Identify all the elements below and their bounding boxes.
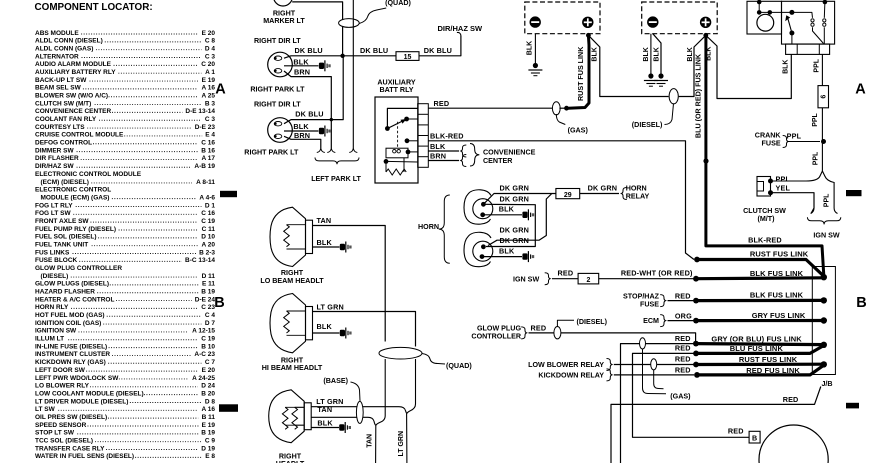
svg-text:BLK: BLK (527, 41, 534, 55)
svg-text:LEFT PWR WDO/LOCK SW: LEFT PWR WDO/LOCK SW (35, 375, 119, 382)
svg-text:CLUTCH SW (M/T): CLUTCH SW (M/T) (35, 100, 91, 107)
svg-text:RED-WHT (OR RED): RED-WHT (OR RED) (621, 269, 693, 278)
wire DK GRN horn upper to horn lower link (483, 204, 535, 246)
wire PPL ignition to fuse 6 (821, 54, 823, 85)
svg-text:BLK: BLK (293, 57, 309, 66)
svg-text:IGNITION COIL (GAS): IGNITION COIL (GAS) (35, 320, 101, 327)
svg-text:ORG: ORG (675, 312, 692, 321)
svg-text:(DIESEL): (DIESEL) (577, 318, 608, 326)
wire marker lamp to dir junction riser (292, 2, 342, 56)
svg-text:RUST FUS LINK: RUST FUS LINK (739, 355, 798, 364)
svg-text:RIGHT DIR LT: RIGHT DIR LT (254, 101, 301, 109)
wire BRN lamp2 (284, 136, 321, 148)
svg-text:C 19: C 19 (201, 336, 215, 343)
junction dot J/B row4 (821, 317, 827, 323)
svg-text:A 4-6: A 4-6 (199, 194, 215, 201)
wire feed row5 from bottom (621, 344, 695, 463)
junction dot row3 left (693, 298, 699, 304)
wire TAN lo beam (313, 226, 386, 342)
label (BASE) with pointer (351, 382, 361, 401)
svg-text:ILLUM LT: ILLUM LT (35, 336, 64, 343)
svg-text:TCC SOL (DIESEL): TCC SOL (DIESEL) (35, 437, 93, 444)
svg-text:ELECTRONIC CONTROL: ELECTRONIC CONTROL (35, 187, 111, 194)
battery GAS plus terminal (582, 17, 593, 28)
registration mark right upper (846, 190, 862, 196)
svg-text:RIGHT: RIGHT (281, 269, 304, 277)
svg-text:D-E 24: D-E 24 (195, 296, 216, 303)
svg-text:C 3: C 3 (205, 53, 216, 60)
svg-text:CRANK: CRANK (755, 131, 782, 139)
svg-text:IGNITION SW: IGNITION SW (35, 328, 77, 335)
battery DIESEL box (642, 2, 718, 34)
svg-text:ALDL CONN (DIESEL): ALDL CONN (DIESEL) (35, 38, 103, 45)
svg-text:STOP LT SW: STOP LT SW (35, 430, 75, 437)
junction dot crank fuse (821, 139, 826, 144)
wire BLK lo beam ground (313, 246, 340, 248)
ground lamp2 (319, 128, 324, 134)
svg-text:D 10: D 10 (201, 234, 215, 241)
svg-text:PPL: PPL (776, 174, 791, 183)
svg-text:A 17: A 17 (202, 155, 216, 162)
svg-text:BLK FUS LINK: BLK FUS LINK (750, 269, 804, 278)
svg-text:A 25: A 25 (202, 93, 216, 100)
junction dot battery DIESEL plus (703, 33, 708, 38)
svg-text:A 12-15: A 12-15 (192, 328, 215, 335)
svg-text:CLUTCH SW: CLUTCH SW (743, 207, 786, 215)
svg-text:FRONT AXLE SW: FRONT AXLE SW (35, 218, 89, 225)
connector ellipse (GAS) row5 (640, 338, 646, 349)
label (GAS) with pointer (556, 114, 565, 125)
svg-text:A-B 19: A-B 19 (194, 163, 215, 170)
svg-text:RED: RED (434, 99, 450, 108)
junction dot row8 left (694, 372, 700, 378)
svg-text:A-C 23: A-C 23 (194, 351, 215, 358)
svg-text:29: 29 (564, 192, 572, 199)
junction dot J/B row3 (821, 297, 827, 303)
svg-text:E 8: E 8 (205, 453, 215, 460)
svg-text:BLOWER SW (W/O A/C): BLOWER SW (W/O A/C) (35, 93, 108, 100)
svg-text:(M/T): (M/T) (757, 215, 775, 223)
svg-text:WATER IN FUEL SENS (DIESEL): WATER IN FUEL SENS (DIESEL) (35, 453, 134, 460)
svg-text:E 11: E 11 (202, 281, 215, 288)
svg-text:BRN: BRN (294, 131, 310, 140)
svg-text:BEAM SEL SW: BEAM SEL SW (35, 85, 82, 92)
ground horn upper (522, 212, 527, 218)
svg-text:AUXILIARY BATTERY RLY: AUXILIARY BATTERY RLY (35, 69, 116, 76)
ground horn lower (522, 253, 527, 259)
wire left marker circuit vertical (352, 0, 354, 148)
wire BRN relay to convenience center (428, 160, 459, 162)
svg-text:MARKER LT: MARKER LT (263, 17, 305, 25)
svg-text:DK GRN: DK GRN (500, 195, 530, 204)
svg-text:FOG LT RLY: FOG LT RLY (35, 202, 73, 209)
svg-text:CONTROLLER: CONTROLLER (471, 333, 521, 341)
svg-text:YEL: YEL (776, 184, 791, 193)
svg-text:C 4: C 4 (205, 312, 216, 319)
headlamp RIGHT HI BEAM (270, 294, 306, 353)
wire TAN merge trouser (368, 416, 385, 463)
wire RED low blower relay (614, 364, 694, 366)
svg-text:LOW BLOWER RELAY: LOW BLOWER RELAY (528, 361, 604, 369)
svg-text:DIR/HAZ SW: DIR/HAZ SW (438, 24, 484, 33)
svg-text:BLK: BLK (430, 142, 446, 151)
starter solenoid terminal B box (749, 431, 760, 443)
svg-text:KICKDOWN RELAY: KICKDOWN RELAY (538, 372, 604, 380)
wire BLU FUS LINK row6 thick (696, 346, 824, 354)
wire BLK-RED relay to fuse link row (428, 141, 694, 260)
svg-text:RED: RED (531, 323, 547, 332)
junction dot row5 left (693, 341, 699, 347)
ground diesel battery 2 (658, 73, 663, 78)
svg-text:B 10: B 10 (201, 343, 215, 350)
junction dot J/B row7-8 (821, 361, 827, 367)
fuse box 15 (396, 52, 419, 61)
ground lamp1 (319, 63, 324, 69)
svg-text:HORN: HORN (418, 223, 439, 231)
label (QUAD) with pointer (422, 354, 445, 365)
svg-text:E 4: E 4 (205, 132, 215, 139)
wire PPL Y split to clutch switch (771, 171, 838, 214)
lamp RIGHT DIR/PARK LT lower (268, 118, 293, 143)
svg-text:D 24: D 24 (201, 383, 215, 390)
relay NC contact dot to BLK-RED pin (405, 138, 410, 143)
svg-text:RIGHT: RIGHT (281, 356, 304, 364)
svg-text:B 19: B 19 (201, 289, 215, 296)
wire DK GRN horn upper to fuse 29 (483, 194, 556, 205)
svg-text:BLK: BLK (499, 247, 515, 256)
svg-text:HI BEAM HEADLT: HI BEAM HEADLT (262, 364, 323, 372)
svg-text:IN-LINE FUSE (DIESEL): IN-LINE FUSE (DIESEL) (35, 343, 107, 350)
wire RED relay to splice (428, 107, 553, 109)
svg-text:TAN: TAN (317, 216, 332, 225)
svg-text:BLK FUS LINK: BLK FUS LINK (750, 291, 804, 300)
svg-text:B: B (214, 295, 224, 311)
svg-text:ABS MODULE: ABS MODULE (35, 30, 79, 37)
svg-text:C 3: C 3 (205, 116, 216, 123)
svg-text:B 20: B 20 (201, 390, 215, 397)
svg-text:DK GRN: DK GRN (500, 226, 530, 235)
connector ellipse (GAS) on RED wire (552, 102, 560, 115)
svg-text:BLK: BLK (592, 47, 599, 61)
svg-text:BACK-UP LT SW: BACK-UP LT SW (35, 77, 87, 84)
svg-text:A 24-25: A 24-25 (192, 375, 215, 382)
wire LT GRN merge trouser (399, 404, 416, 463)
headlamp RIGHT HEADLT (base) (269, 390, 305, 443)
svg-text:LOW COOLANT MODULE (DIESEL): LOW COOLANT MODULE (DIESEL) (35, 390, 144, 397)
svg-text:FOG LT SW: FOG LT SW (35, 210, 71, 217)
svg-text:D 1: D 1 (205, 202, 216, 209)
fuse box 29 (556, 189, 580, 199)
wire DK BLU junction to fuse 15 (343, 55, 396, 57)
svg-text:TAN: TAN (367, 434, 374, 448)
brace horns (439, 195, 450, 263)
svg-text:BLK: BLK (783, 60, 790, 74)
svg-text:DK GRN: DK GRN (500, 184, 530, 193)
ground lo beam (340, 244, 345, 250)
registration mark left upper (220, 191, 237, 197)
svg-text:CRUISE CONTROL MODULE: CRUISE CONTROL MODULE (35, 132, 124, 139)
svg-text:PPL: PPL (812, 112, 819, 126)
svg-text:E 19: E 19 (202, 77, 216, 84)
connector ellipse (QUAD) headlamps (379, 347, 422, 359)
svg-text:MODULE (ECM) (GAS): MODULE (ECM) (GAS) (41, 194, 110, 201)
svg-text:E 20: E 20 (202, 367, 216, 374)
svg-text:GRY (OR BLU) FUS LINK: GRY (OR BLU) FUS LINK (711, 334, 802, 343)
svg-text:KICKDOWN RLY (GAS): KICKDOWN RLY (GAS) (35, 359, 106, 366)
svg-text:HAZARD FLASHER: HAZARD FLASHER (35, 289, 95, 296)
svg-text:C 23: C 23 (201, 304, 215, 311)
wire BLU (OR RED) FUS LINK thick (706, 35, 824, 275)
svg-text:A: A (215, 82, 226, 98)
svg-text:COOLANT FAN RLY: COOLANT FAN RLY (35, 116, 97, 123)
svg-text:C 16: C 16 (201, 140, 215, 147)
wire TAN below quad (384, 359, 386, 416)
registration mark right lower (846, 403, 859, 409)
wire battery link right part (679, 35, 706, 96)
svg-text:BLK: BLK (653, 47, 660, 61)
svg-text:FUS LINKS: FUS LINKS (35, 249, 70, 256)
wire BLK lamp1 to ground (284, 65, 319, 67)
svg-text:B 16: B 16 (201, 147, 215, 154)
svg-text:FUSE: FUSE (640, 300, 659, 308)
svg-text:DK GRN: DK GRN (588, 184, 618, 193)
svg-text:C 8: C 8 (205, 38, 216, 45)
relay AUXILIARY BATT RLY box (375, 97, 418, 183)
svg-text:A 16: A 16 (202, 406, 216, 413)
svg-text:6: 6 (821, 95, 828, 99)
svg-text:HOT FUEL MOD (GAS): HOT FUEL MOD (GAS) (35, 312, 105, 319)
switch CLUTCH SW (M/T) (757, 177, 771, 197)
svg-text:BLK: BLK (293, 122, 309, 131)
svg-text:DK BLU: DK BLU (424, 46, 452, 55)
svg-text:RED: RED (558, 269, 574, 278)
svg-text:FUEL PUMP RLY (DIESEL): FUEL PUMP RLY (DIESEL) (35, 226, 116, 233)
svg-text:RIGHT PARK LT: RIGHT PARK LT (250, 86, 305, 94)
label (QUAD) top with pointer (359, 8, 386, 24)
junction dot row6 left (693, 351, 699, 357)
svg-text:C 11: C 11 (202, 226, 216, 233)
junction dot J/B row5-6 (821, 342, 827, 348)
svg-text:ELECTRONIC CONTROL MODULE: ELECTRONIC CONTROL MODULE (35, 171, 142, 178)
svg-text:LEFT PARK LT: LEFT PARK LT (311, 175, 361, 183)
svg-text:RIGHT PARK LT: RIGHT PARK LT (244, 149, 299, 157)
registration mark left lower (219, 404, 238, 412)
svg-text:RED: RED (675, 291, 691, 300)
wire DK GRN fuse 29 to horn relay (580, 193, 619, 195)
wire RED glow plug controller (529, 332, 555, 334)
svg-text:RIGHT DIR LT: RIGHT DIR LT (254, 37, 301, 45)
relay pin block (418, 104, 429, 168)
svg-text:D 19: D 19 (201, 445, 215, 452)
ground hi beam (340, 330, 345, 336)
svg-text:(GAS): (GAS) (670, 392, 691, 400)
wire BLK base headlamp ground (311, 427, 339, 429)
junction dot J/B rows 1-2 (821, 274, 827, 280)
ground base headlamp (339, 424, 344, 430)
wire RED splice to junction (559, 107, 566, 109)
wire TAN base headlamp (311, 416, 368, 418)
svg-text:A 1: A 1 (205, 69, 215, 76)
ignition switch internal dots and arm (757, 0, 762, 4)
wire RED kickdown relay (614, 374, 694, 376)
svg-text:PPL: PPL (813, 151, 820, 165)
wire feed row6 from starter (633, 353, 750, 437)
wire BLK lamp2 to ground (284, 130, 319, 132)
ground battery GAS (533, 63, 538, 68)
connector ellipse (GAS) row7 (651, 359, 657, 370)
svg-text:HORN: HORN (626, 184, 647, 192)
svg-text:D-E 13-14: D-E 13-14 (185, 108, 215, 115)
svg-text:A 16: A 16 (202, 85, 216, 92)
svg-text:DK BLU: DK BLU (360, 46, 388, 55)
svg-text:A 20: A 20 (202, 241, 216, 248)
svg-text:BLK: BLK (317, 238, 333, 247)
svg-text:CONVENIENCE: CONVENIENCE (483, 149, 536, 157)
svg-text:PPL: PPL (814, 58, 821, 72)
wire RUST FUS LINK row1 thick (697, 260, 824, 277)
wire DK GRN branch to horn lower (488, 194, 552, 246)
wire LT GRN below quad (415, 359, 417, 404)
svg-text:RELAY: RELAY (626, 192, 650, 200)
svg-text:GRY FUS LINK: GRY FUS LINK (752, 311, 806, 320)
svg-text:COMPONENT LOCATOR:: COMPONENT LOCATOR: (35, 2, 153, 13)
ignition switch main box (782, 1, 835, 44)
svg-text:RED: RED (675, 366, 691, 375)
wire RED-WHT (OR RED) (599, 278, 694, 280)
svg-text:D-E 23: D-E 23 (195, 124, 216, 131)
wire GRY FUS LINK row4 thick (696, 319, 824, 322)
ignition switch contacts (823, 0, 828, 4)
junction dot row4 left (693, 318, 699, 324)
horn lower (464, 232, 491, 266)
svg-text:B-C 13-14: B-C 13-14 (185, 257, 215, 264)
wire BLK relay to convenience center (428, 150, 459, 152)
svg-text:C 9: C 9 (205, 437, 216, 444)
svg-text:AUDIO ALARM MODULE: AUDIO ALARM MODULE (35, 61, 112, 68)
wire BRN lamp1 (284, 71, 331, 148)
wire PPL down to Y split (821, 142, 823, 172)
junction dot RUST FUS LINK (564, 106, 569, 111)
wire RUST FUS LINK thick (568, 35, 589, 108)
svg-text:PPL: PPL (824, 193, 831, 207)
svg-text:BRN: BRN (430, 152, 446, 161)
svg-text:(DIESEL): (DIESEL) (41, 273, 69, 280)
relay actuation dashed link (397, 122, 399, 149)
battery DIESEL minus terminal (647, 16, 658, 27)
left park lt connector flares (317, 148, 325, 153)
junction dot row1 (694, 257, 700, 263)
relay coil return dot (384, 159, 389, 164)
svg-text:RUST FUS LINK: RUST FUS LINK (750, 249, 809, 258)
svg-text:B: B (856, 295, 866, 311)
svg-text:C 19: C 19 (201, 218, 215, 225)
wire RED from J/B to starter area (611, 387, 821, 464)
svg-text:SPEED SENSOR: SPEED SENSOR (35, 422, 87, 429)
svg-text:A: A (855, 82, 866, 98)
connector ellipse (QUAD) top (339, 19, 360, 28)
svg-text:RUST FUS LINK: RUST FUS LINK (577, 46, 585, 101)
wire RUST FUS LINK row7 thick (696, 363, 824, 366)
wire BLK FUS LINK row2 thick (696, 276, 824, 280)
wire RED FUS LINK row8 thick (697, 365, 824, 375)
horn upper (464, 190, 491, 224)
svg-text:TAN: TAN (317, 405, 332, 414)
svg-text:ALDL CONN (GAS): ALDL CONN (GAS) (35, 45, 93, 52)
svg-text:BLK-RED: BLK-RED (748, 235, 782, 244)
svg-text:RED: RED (783, 395, 799, 404)
svg-text:2: 2 (586, 277, 590, 284)
brace IGN SW (807, 217, 840, 224)
svg-text:IGN SW: IGN SW (513, 275, 539, 283)
svg-text:DK GRN: DK GRN (500, 236, 530, 245)
svg-text:DIMMER SW: DIMMER SW (35, 147, 75, 154)
svg-text:FUSE: FUSE (762, 140, 781, 148)
wire PPL fuse 6 to crank splice (821, 108, 823, 142)
svg-text:DIR/HAZ SW: DIR/HAZ SW (35, 163, 75, 170)
svg-text:(DIESEL): (DIESEL) (632, 121, 663, 129)
svg-text:(BASE): (BASE) (323, 377, 348, 385)
wire BLK battery GAS minus to ground (534, 34, 536, 63)
relay resistor (385, 161, 387, 172)
svg-text:BLU FUS LINK: BLU FUS LINK (730, 344, 784, 353)
wire BLK battery GAS plus to diesel battery (588, 35, 668, 96)
svg-text:C 16: C 16 (201, 210, 215, 217)
wire LT GRN base headlamp (311, 406, 399, 408)
svg-text:B 3: B 3 (205, 100, 216, 107)
svg-text:IGN SW: IGN SW (813, 231, 839, 239)
wire RED ign sw to fuse 2 (552, 278, 578, 280)
svg-text:RED: RED (675, 344, 691, 353)
svg-text:DIR FLASHER: DIR FLASHER (35, 155, 79, 162)
svg-text:OIL PRES SW (DIESEL): OIL PRES SW (DIESEL) (35, 414, 107, 421)
connector ellipse (DIESEL) glow plug (554, 327, 561, 339)
svg-text:DK BLU: DK BLU (295, 110, 323, 119)
connector ellipse (BASE) (356, 401, 363, 423)
svg-text:(ECM) (DIESEL): (ECM) (DIESEL) (41, 179, 89, 186)
crossing blob brn over dkblu (330, 118, 333, 121)
wire BLK hi beam ground (313, 332, 340, 334)
wire ORG ecm (668, 320, 695, 322)
junction dot row7 left (693, 362, 699, 368)
wire GRY (OR BLU) FUS LINK row5 thick (696, 344, 824, 345)
svg-text:LEFT DOOR SW: LEFT DOOR SW (35, 367, 86, 374)
svg-text:GLOW PLUGS (DIESEL): GLOW PLUGS (DIESEL) (35, 281, 109, 288)
ground diesel battery 1 (648, 73, 653, 78)
svg-text:B 19: B 19 (201, 430, 215, 437)
svg-text:LT DRIVER MODULE (DIESEL): LT DRIVER MODULE (DIESEL) (35, 398, 128, 405)
wire BLK horn upper ground (483, 214, 522, 216)
junction box J/B (812, 267, 835, 375)
junction dot row2 left (693, 276, 699, 282)
fuse box 2 (578, 273, 599, 284)
svg-text:RED: RED (728, 427, 744, 436)
svg-text:BRN: BRN (294, 68, 310, 77)
svg-text:LT GRN: LT GRN (398, 431, 405, 457)
svg-text:CENTER: CENTER (483, 157, 513, 165)
battery GAS box (525, 2, 600, 34)
wire BLK horn lower ground (482, 256, 522, 258)
svg-text:BLK: BLK (499, 205, 515, 214)
svg-text:J/B: J/B (821, 380, 832, 388)
wire PPL to crank fuse (788, 141, 820, 143)
svg-text:DK BLU: DK BLU (295, 46, 323, 55)
svg-text:D 4: D 4 (205, 45, 216, 52)
svg-text:BLK: BLK (317, 322, 333, 331)
svg-text:B: B (752, 435, 757, 443)
svg-text:PPL: PPL (787, 131, 802, 140)
svg-text:E 20: E 20 (202, 30, 216, 37)
svg-text:BLK: BLK (687, 47, 694, 61)
